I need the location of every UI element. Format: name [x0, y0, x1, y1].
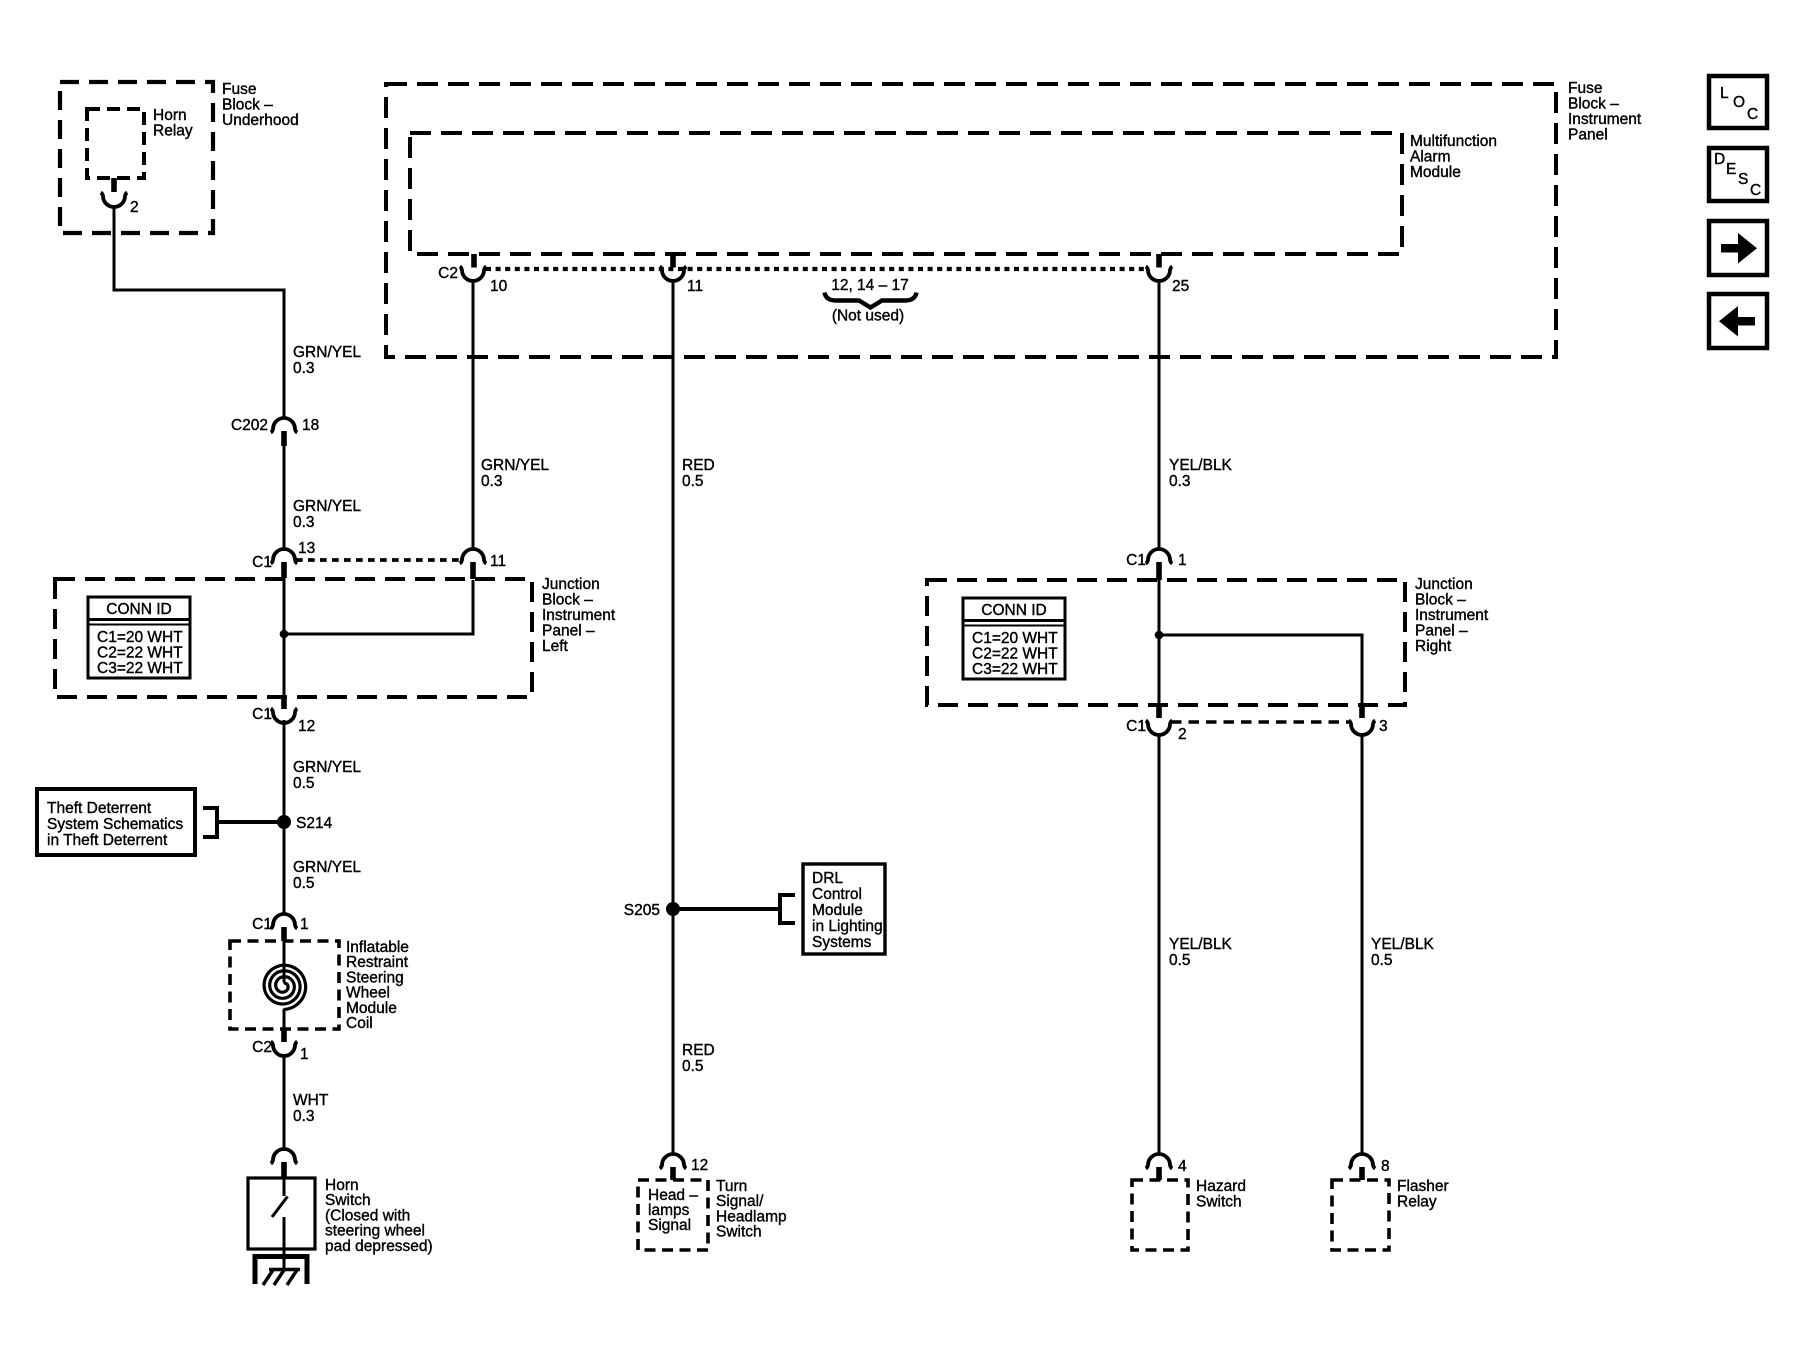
- svg-text:0.5: 0.5: [1371, 952, 1393, 969]
- svg-text:Switch: Switch: [1196, 1194, 1242, 1211]
- svg-text:S: S: [1738, 171, 1748, 188]
- svg-text:Hazard: Hazard: [1196, 1178, 1246, 1195]
- svg-text:Panel –: Panel –: [542, 623, 595, 640]
- svg-text:1: 1: [300, 1046, 309, 1063]
- svg-text:C3=22 WHT: C3=22 WHT: [97, 660, 183, 677]
- svg-text:C3=22 WHT: C3=22 WHT: [972, 661, 1058, 678]
- svg-text:C202: C202: [231, 417, 268, 434]
- svg-text:CONN ID: CONN ID: [106, 601, 171, 618]
- svg-text:0.3: 0.3: [1169, 473, 1191, 490]
- svg-text:Switch: Switch: [716, 1224, 762, 1241]
- svg-text:Panel: Panel: [1568, 127, 1608, 144]
- svg-text:Block –: Block –: [542, 592, 593, 609]
- svg-text:Signal: Signal: [648, 1217, 691, 1234]
- svg-text:4: 4: [1178, 1158, 1187, 1175]
- svg-text:S205: S205: [624, 902, 660, 919]
- svg-text:YEL/BLK: YEL/BLK: [1371, 936, 1435, 953]
- svg-text:0.3: 0.3: [293, 1108, 315, 1125]
- svg-text:Theft Deterrent: Theft Deterrent: [47, 800, 152, 817]
- svg-text:0.5: 0.5: [293, 875, 315, 892]
- svg-text:8: 8: [1381, 1158, 1390, 1175]
- svg-text:Flasher: Flasher: [1397, 1178, 1449, 1195]
- svg-text:10: 10: [490, 278, 508, 295]
- svg-text:12, 14 – 17: 12, 14 – 17: [831, 277, 909, 294]
- svg-text:D: D: [1714, 151, 1725, 168]
- svg-text:Underhood: Underhood: [222, 112, 299, 129]
- svg-text:11: 11: [687, 278, 703, 295]
- svg-text:pad depressed): pad depressed): [325, 1238, 433, 1255]
- svg-text:Alarm: Alarm: [1410, 149, 1450, 166]
- svg-text:GRN/YEL: GRN/YEL: [481, 457, 549, 474]
- svg-text:Panel –: Panel –: [1415, 623, 1468, 640]
- svg-text:Multifunction: Multifunction: [1410, 133, 1497, 150]
- svg-text:0.5: 0.5: [293, 775, 315, 792]
- svg-text:11: 11: [490, 553, 506, 570]
- svg-text:in Lighting: in Lighting: [812, 918, 883, 935]
- svg-text:Left: Left: [542, 638, 569, 655]
- svg-text:GRN/YEL: GRN/YEL: [293, 859, 361, 876]
- svg-text:C1: C1: [252, 554, 272, 571]
- svg-text:Instrument: Instrument: [1415, 607, 1489, 624]
- svg-text:C2: C2: [252, 1039, 272, 1056]
- svg-text:RED: RED: [682, 457, 715, 474]
- svg-text:Block –: Block –: [222, 97, 273, 114]
- svg-text:Relay: Relay: [1397, 1194, 1437, 1211]
- svg-text:Systems: Systems: [812, 934, 872, 951]
- svg-text:E: E: [1726, 161, 1736, 178]
- svg-text:Junction: Junction: [1415, 576, 1473, 593]
- svg-text:RED: RED: [682, 1042, 715, 1059]
- svg-text:Block –: Block –: [1568, 96, 1619, 113]
- svg-text:Fuse: Fuse: [222, 81, 256, 98]
- svg-text:C2=22 WHT: C2=22 WHT: [972, 646, 1058, 663]
- svg-text:13: 13: [298, 540, 315, 557]
- svg-text:0.3: 0.3: [293, 514, 315, 531]
- svg-text:(Not used): (Not used): [832, 308, 904, 325]
- svg-text:12: 12: [298, 718, 315, 735]
- svg-text:GRN/YEL: GRN/YEL: [293, 498, 361, 515]
- svg-text:C1: C1: [1126, 718, 1146, 735]
- svg-text:in Theft Deterrent: in Theft Deterrent: [47, 832, 168, 849]
- svg-text:C1=20 WHT: C1=20 WHT: [97, 629, 183, 646]
- svg-text:C1=20 WHT: C1=20 WHT: [972, 630, 1058, 647]
- svg-text:2: 2: [1178, 726, 1187, 743]
- svg-text:2: 2: [130, 199, 139, 216]
- svg-text:0.3: 0.3: [293, 360, 315, 377]
- svg-text:Fuse: Fuse: [1568, 80, 1602, 97]
- svg-text:Coil: Coil: [346, 1015, 373, 1032]
- svg-text:Horn: Horn: [153, 107, 187, 124]
- svg-text:O: O: [1733, 94, 1745, 111]
- svg-text:C: C: [1750, 182, 1761, 199]
- svg-text:Instrument: Instrument: [1568, 111, 1642, 128]
- svg-text:1: 1: [300, 916, 309, 933]
- svg-text:Junction: Junction: [542, 576, 600, 593]
- svg-text:Control: Control: [812, 886, 862, 903]
- svg-text:GRN/YEL: GRN/YEL: [293, 344, 361, 361]
- svg-text:C1: C1: [252, 916, 272, 933]
- svg-text:0.3: 0.3: [481, 473, 503, 490]
- svg-text:C1: C1: [1126, 552, 1146, 569]
- svg-text:Instrument: Instrument: [542, 607, 616, 624]
- svg-text:3: 3: [1379, 718, 1388, 735]
- svg-text:C: C: [1747, 106, 1758, 123]
- svg-text:S214: S214: [296, 815, 333, 832]
- svg-text:System Schematics: System Schematics: [47, 816, 183, 833]
- svg-text:25: 25: [1172, 278, 1189, 295]
- svg-text:0.5: 0.5: [682, 473, 704, 490]
- svg-text:DRL: DRL: [812, 870, 843, 887]
- svg-text:0.5: 0.5: [682, 1058, 704, 1075]
- svg-text:Module: Module: [1410, 164, 1461, 181]
- svg-text:0.5: 0.5: [1169, 952, 1191, 969]
- svg-text:Right: Right: [1415, 638, 1452, 655]
- svg-text:YEL/BLK: YEL/BLK: [1169, 457, 1233, 474]
- svg-text:YEL/BLK: YEL/BLK: [1169, 936, 1233, 953]
- svg-text:12: 12: [691, 1157, 708, 1174]
- svg-text:GRN/YEL: GRN/YEL: [293, 759, 361, 776]
- svg-text:Block –: Block –: [1415, 592, 1466, 609]
- svg-text:Relay: Relay: [153, 123, 193, 140]
- svg-text:18: 18: [302, 417, 319, 434]
- svg-text:C1: C1: [252, 706, 272, 723]
- svg-text:Module: Module: [812, 902, 863, 919]
- svg-text:C2=22 WHT: C2=22 WHT: [97, 645, 183, 662]
- svg-text:C2: C2: [438, 265, 458, 282]
- svg-text:1: 1: [1178, 552, 1187, 569]
- svg-text:WHT: WHT: [293, 1092, 329, 1109]
- svg-text:L: L: [1720, 85, 1729, 102]
- svg-text:CONN ID: CONN ID: [981, 602, 1046, 619]
